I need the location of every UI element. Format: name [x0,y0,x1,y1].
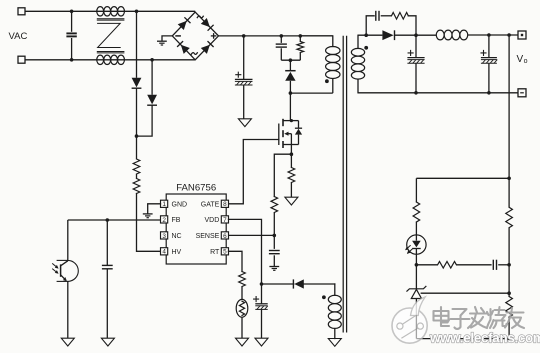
capacitor C6 (VDD electrolytic) [254,284,268,338]
node clamp cap junction [280,34,284,38]
wire RT resistor to thermistor [241,287,243,300]
node HV tap on AC bottom [150,58,154,62]
svg-text:FB: FB [172,217,181,224]
resistor R6 (RT) [239,272,246,287]
svg-text:FAN6756: FAN6756 [176,183,216,194]
transformer T1 primary phase dot [325,79,329,83]
capacitor C5 (FB filter) [102,220,113,338]
svg-text:GND: GND [172,201,188,208]
wire pin1 GND [148,204,161,214]
resistor R8 (opto LED bias) [413,202,420,222]
bridge diode (upper-left) [178,17,191,30]
wire comp middle [456,264,491,266]
capacitor C1 (X-cap) [66,11,76,60]
svg-text:5: 5 [223,249,227,256]
svg-text:2: 2 [162,217,166,224]
transformer T1 secondary phase dot [364,46,368,50]
pin 1 square (GND) [161,200,168,208]
resistor R11 (divider lower) [506,265,513,339]
pin 5 square (RT) [221,248,228,256]
mosfet Q1 [279,119,292,148]
wire TL431 ref [421,292,510,294]
wire clamp diode to drain node [289,81,291,93]
capacitor C3 (clamp) [276,36,287,60]
wire VDD to aux diode [262,283,295,285]
wire secondary top rail [358,34,382,36]
node source junction [290,152,294,156]
pin 6 square (SENSE) [221,232,228,240]
wire bias branch [415,178,417,202]
wire to startup resistors [136,136,138,159]
capacitor C9 (output electrolytic 2) [481,35,497,93]
svg-text:1: 1 [162,201,166,208]
op-amp U1 FAN6756 body [166,194,226,264]
label Vo [517,54,528,65]
node drain body-diode junction [290,119,293,122]
transformer T1 aux phase dot [322,295,326,299]
ground (SENSE filter, earth) [269,267,279,271]
pin label VDD [205,217,220,224]
pin label GND [172,201,188,208]
node output cap 1 junction [414,33,418,37]
node output cap 2 bottom [487,91,491,95]
ground (IC pin1, earth) [143,214,153,218]
wire bias to LED [415,222,417,235]
capacitor C2 (bulk electrolytic) [235,36,253,119]
ground (RT network) [236,338,249,346]
bridge diode (lower-left) [177,41,190,54]
wire AC line bottom [25,59,195,61]
svg-text:VDD: VDD [205,217,220,224]
diode D1 (startup, from line) [132,78,142,88]
node startup diodes junction [135,134,139,138]
wire clamp RC join [281,59,300,61]
wire between startup resistors [136,174,138,179]
transformer T1 primary winding [300,36,340,93]
svg-text:NC: NC [172,233,182,240]
pin label NC [172,233,182,240]
optocoupler U2 (transistor side) [52,220,78,338]
transistor U3 (TL431 shunt regulator) [407,286,426,338]
svg-text:VAC: VAC [9,31,28,42]
optocoupler U2 (LED side) [405,235,426,265]
wire gate [229,140,279,204]
node FB junction [106,218,110,222]
svg-text:GATE: GATE [201,201,220,208]
wire HV to pin 4 [137,194,161,252]
pin 8 square (GATE) [221,200,228,208]
ground (sense resistor) [285,197,298,205]
node clamp resistor junction [299,34,303,38]
ground (opto emitter) [61,338,74,346]
wire drain [283,93,299,121]
wire output top rail [416,34,436,36]
wire TL431 cathode [415,265,417,289]
svg-text:o: o [524,58,528,65]
svg-text:V: V [517,54,524,65]
wire source [290,145,292,155]
terminal J3 (Vo+) [518,31,526,39]
resistor R1 (startup) [133,159,140,174]
wire output diode to rail [395,34,416,36]
diode D4 (aux rectifier) [293,279,303,288]
wire HV startup left leg [136,11,138,78]
ground (VDD cap) [255,338,268,346]
node output cap 1 bottom [414,91,418,95]
node bulk cap junction [242,34,246,38]
svg-text:HV: HV [172,249,182,256]
wire D1 cathode down [136,88,138,136]
resistor R2 (startup) [133,179,140,194]
terminal J4 (Vo-) [518,89,526,97]
thermistor RT1 [236,299,248,317]
bridge AC mark top [197,16,203,18]
resistor R10 (divider upper) [506,178,513,264]
ground (bridge negative, earth) [157,41,167,45]
node SENSE junction [273,234,277,238]
pin 7 square (VDD) [221,216,228,224]
wire bridge negative to ground [162,36,172,41]
wire primary bottom [290,92,332,94]
svg-text:4: 4 [162,249,166,256]
node HV tap on AC top [135,10,139,14]
bridge minus mark [175,35,181,37]
diode D2 (startup, from neutral) [147,95,157,105]
wire thermistor to ground [241,317,243,338]
bridge diode (upper-right) [201,18,214,31]
wire DC bus [219,35,333,37]
wire pin6 SENSE [229,234,275,236]
pin label SENSE [196,233,220,240]
node output cap 2 junction [487,33,491,37]
capacitor C10 (compensation) [493,260,496,270]
resistor R3 (clamp) [297,36,304,60]
pin label FB [172,217,181,224]
ground (bulk cap) [238,119,251,127]
resistor R5 (CS filter) [271,197,278,213]
node feedback bottom [507,337,511,341]
wire AC line top [25,10,195,12]
label FAN6756 [176,183,216,194]
pin 4 square (HV) [161,248,168,256]
wire clamp node down [289,60,291,70]
node comp right junction [507,263,511,267]
pin label GATE [201,201,220,208]
ground (FB filter cap) [101,338,114,346]
wire CS filter to SENSE [273,213,275,236]
svg-text:SENSE: SENSE [196,233,220,240]
svg-text:RT: RT [210,249,220,256]
wire aux diode to winding [304,283,335,285]
wire inductor to terminal [468,34,518,36]
pin 2 square (FB) [161,216,168,224]
node divider mid (ref) [507,291,511,295]
node VDD junction [260,282,264,286]
wire output bottom rail [358,92,518,94]
label VAC [9,31,28,42]
resistor R4 (sense) [288,154,295,197]
wire HV startup right leg [151,60,153,95]
diode D3 (clamp) [285,71,295,81]
transformer T1 core [343,36,346,333]
terminal J2 (VAC neutral input) [18,56,25,63]
wire pin2 FB [68,219,161,221]
svg-text:3: 3 [162,233,166,240]
svg-text:7: 7 [223,217,227,224]
wire feedback bottom rail [416,338,509,340]
node drain / primary junction [289,91,293,95]
node X-cap bottom junction [70,58,74,62]
bridge diode (lower-right) [201,41,214,54]
wire pin5 RT [229,251,243,271]
svg-text:www.elecfans.com: www.elecfans.com [429,331,540,346]
node X-cap top junction [70,10,74,14]
svg-text:6: 6 [223,233,227,240]
bridge plus mark [211,33,217,39]
wire feedback top [416,177,509,179]
inductor L1 (common-mode choke) [97,7,125,65]
transformer T1 secondary winding [351,35,364,93]
wire pin7 VDD [229,219,262,284]
node Vo sense tap [507,33,511,37]
watermark elecfans logo and text [392,297,540,346]
terminal J1 (VAC line input) [18,8,25,15]
wire comp right [498,264,509,266]
pin label HV [172,249,182,256]
wire comp left [416,264,437,266]
diode D5 (output rectifier) [382,30,394,40]
svg-text:8: 8 [223,201,227,208]
inductor L2 (output filter) [436,30,467,40]
mosfet Q1 body diode [291,121,302,145]
capacitor C4 (SENSE filter) [269,235,280,266]
transformer T1 aux winding [328,284,341,339]
bridge rectifier BR1 outline [172,12,218,60]
wire source to CS filter [274,154,291,196]
wire snubber to diode cathode [408,16,416,35]
pin 3 square (NC) [161,232,168,240]
node feedback top [507,177,511,181]
bridge AC mark bottom [191,53,197,55]
pin label RT [210,249,220,256]
resistor R7 (secondary snubber) [392,13,409,20]
wire Vo sense line [508,35,510,178]
wire D2 join [137,105,153,136]
node comp left junction [415,263,419,267]
resistor R9 (compensation) [438,262,457,269]
capacitor C8 (output electrolytic 1) [407,35,424,93]
ground (aux winding) [328,339,341,347]
capacitor C7 (secondary snubber) [366,11,391,35]
node snubber left junction [364,33,368,37]
node clamp RC bottom [289,58,293,62]
